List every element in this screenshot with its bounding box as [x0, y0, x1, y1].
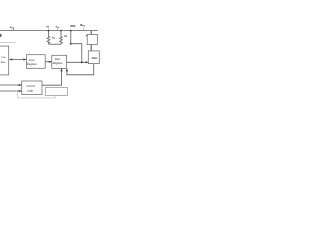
- block 8-bit bus: [0, 46, 9, 75]
- arrowhead into bus: [9, 58, 12, 60]
- wire RPD pin tick: [82, 28, 84, 31]
- node junction on dac input wire: [81, 61, 83, 63]
- arrowhead into dac register: [49, 61, 52, 63]
- svg-text:Logic: Logic: [27, 90, 34, 93]
- svg-text:Input: Input: [29, 59, 35, 62]
- wire RPD box to DAC top: [90, 45, 92, 51]
- arrowhead into input register: [23, 58, 26, 60]
- wire dac register to dac: [67, 61, 89, 63]
- block por: [45, 88, 67, 96]
- arrowhead into dac: [86, 61, 89, 63]
- wire VDD tick: [12, 29, 14, 31]
- block input register: [26, 55, 45, 69]
- svg-text:Register: Register: [53, 62, 63, 65]
- block DAC: [88, 51, 99, 64]
- wire REF to right then down to DAC input: [71, 44, 82, 63]
- background: [0, 0, 100, 100]
- svg-text:Bus: Bus: [1, 61, 6, 64]
- block dac register: [52, 55, 67, 68]
- wire R1 pin tick: [47, 28, 49, 30]
- arrowhead control into dac register bottom: [60, 68, 62, 71]
- node junction on rail at REF: [70, 30, 72, 32]
- resistor box RPD: [87, 34, 97, 44]
- wire R1-R2 bottom node: [49, 43, 62, 45]
- svg-text:8-Bit: 8-Bit: [1, 56, 6, 59]
- arrowhead control input 1: [19, 84, 22, 86]
- label data pin at left edge: [0, 34, 2, 37]
- wire input register to dac register: [45, 61, 52, 63]
- svg-text:DAC: DAC: [55, 58, 61, 61]
- wire bottom run to por: [17, 95, 55, 98]
- svg-text:REF: REF: [70, 25, 76, 28]
- node junction REF corner: [70, 43, 72, 45]
- wire bus to input register (bidirectional): [9, 59, 26, 61]
- wire data input left: [0, 42, 17, 44]
- wire control input 1: [0, 84, 22, 86]
- node junction on rail at R1: [48, 30, 50, 32]
- node VDD rail: [0, 30, 98, 32]
- wire control logic to dac register bottom: [42, 68, 62, 85]
- resistor R2: [60, 31, 63, 45]
- arrowhead feedback into dac register bottom: [66, 68, 68, 71]
- wire dac feedback down-left: [67, 64, 94, 75]
- wire control input 2: [0, 90, 22, 92]
- wire rail stub to RPD box: [90, 31, 92, 35]
- block control logic: [22, 81, 42, 94]
- wire reset branch down: [16, 91, 18, 98]
- arrowhead control input 2: [19, 90, 22, 92]
- resistor R1: [47, 31, 50, 45]
- svg-text:VDD: VDD: [10, 26, 15, 30]
- node junction on rail at R2: [60, 30, 62, 32]
- svg-text:Control: Control: [26, 85, 35, 88]
- wire RFB pin tick: [57, 28, 59, 31]
- wire REF down from rail: [70, 31, 72, 44]
- svg-text:Register: Register: [27, 63, 37, 66]
- svg-text:DAC: DAC: [92, 57, 98, 60]
